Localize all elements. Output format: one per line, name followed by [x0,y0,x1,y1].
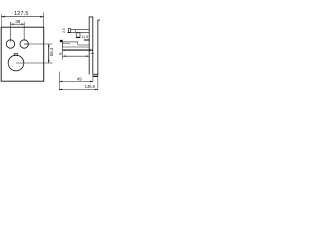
55.3 ext top [24,43,52,45]
dim 127.5 line [1,16,44,18]
knob notch [14,54,17,56]
button circle right [20,40,28,48]
right button radius tick [24,43,28,45]
thermostat knob side profile [60,40,63,42]
button circle left [6,40,14,48]
svg-text:136.9: 136.9 [85,84,96,89]
svg-text:127.5: 127.5 [14,11,29,17]
ext line right of 127.5 [43,13,45,28]
knob circle [8,55,24,71]
svg-text:49: 49 [77,77,82,82]
plate rectangle [1,27,44,81]
bottom ext lines [58,72,60,91]
dim bar y50 [61,47,63,60]
svg-text:40: 40 [59,52,63,56]
ext lines down to buttons [10,22,12,42]
box behind wall [97,20,99,75]
55.3 dim line [48,44,50,63]
short tick near band [91,53,94,55]
svg-text:11.5: 11.5 [81,35,88,39]
55.3 ext bottom [16,62,53,64]
upper dim cluster [76,33,80,38]
top button side profile [68,29,70,33]
svg-text:38: 38 [15,19,21,24]
wall thickness bar [93,76,98,77]
dim 38 line [11,23,25,25]
svg-text:55.3: 55.3 [49,47,54,56]
svg-text:2.5: 2.5 [62,28,66,33]
plate band [88,17,90,75]
